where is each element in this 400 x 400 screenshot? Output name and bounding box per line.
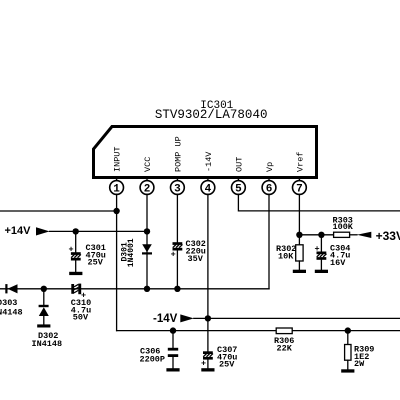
+33V arrow (357, 232, 371, 238)
svg-text:1: 1 (113, 183, 120, 195)
wire pin5 OUT (238, 194, 400, 211)
svg-text:4: 4 (205, 183, 212, 195)
node pin7/R302 (296, 232, 302, 238)
svg-text:50V: 50V (73, 313, 89, 323)
pin 1 circle (110, 179, 124, 195)
svg-text:STV9302/LA78040: STV9302/LA78040 (155, 108, 268, 122)
node pin4/-14V (205, 315, 211, 321)
pin 6 circle (262, 179, 276, 195)
capacitor C302 (171, 242, 183, 289)
wire pin1 vertical (116, 194, 118, 330)
resistor R302 (296, 235, 303, 270)
resistor R303 (334, 232, 350, 237)
capacitor C301 (68, 231, 80, 272)
svg-text:7: 7 (296, 183, 303, 195)
node C304 top (318, 232, 324, 238)
svg-text:+33V: +33V (376, 229, 400, 243)
svg-text:VCC: VCC (143, 157, 153, 172)
resistor R306 (276, 328, 292, 334)
resistor R309 (345, 331, 351, 370)
node D302 junction (41, 286, 47, 292)
svg-text:Vref: Vref (295, 152, 305, 172)
wire +33V rail (299, 234, 333, 236)
node R309 top (345, 327, 351, 333)
svg-text:Vp: Vp (265, 162, 275, 172)
svg-text:5: 5 (235, 183, 242, 195)
node pin2 bottom (144, 286, 150, 292)
wire pump rail (0, 288, 269, 290)
node junction pin1/branch (113, 208, 119, 214)
svg-text:+: + (171, 249, 176, 259)
wire pin4 vertical (207, 194, 209, 351)
+14V arrow (36, 227, 50, 235)
svg-text:POMP UP: POMP UP (173, 136, 183, 172)
ground C306 (166, 368, 179, 371)
wire pin2 vertical (146, 194, 148, 288)
diode D301 (142, 244, 152, 254)
ground C307 (201, 368, 214, 371)
svg-text:1N4001: 1N4001 (127, 238, 136, 267)
svg-text:+14V: +14V (5, 225, 32, 237)
wire pin1 upper branch to left edge (0, 210, 117, 212)
svg-text:100K: 100K (333, 222, 354, 232)
capacitor C306 (168, 331, 178, 369)
svg-text:2W: 2W (354, 359, 365, 369)
capacitor C307 (201, 351, 213, 368)
svg-text:3: 3 (174, 183, 181, 195)
node C302 bottom (174, 286, 180, 292)
svg-text:2: 2 (144, 183, 151, 195)
svg-text:25V: 25V (88, 258, 104, 268)
wire pin6 vertical (268, 194, 270, 288)
pin 3 circle (171, 179, 185, 195)
svg-text:-14V: -14V (153, 313, 178, 325)
svg-text:16V: 16V (330, 258, 346, 268)
capacitor C310 (71, 284, 86, 301)
wire pin7 vertical (298, 194, 300, 235)
svg-text:25V: 25V (219, 360, 235, 370)
diode D302 (39, 289, 49, 325)
wire -14V rail (194, 317, 400, 319)
svg-text:-14V: -14V (204, 151, 214, 172)
node C306 top (170, 327, 176, 333)
capacitor C304 (314, 235, 326, 270)
svg-text:OUT: OUT (234, 157, 244, 172)
pin 7 circle (293, 179, 307, 195)
ground D302 (37, 324, 50, 327)
svg-text:2200P: 2200P (140, 354, 166, 364)
pin 4 circle (201, 179, 215, 195)
svg-text:IN4148: IN4148 (32, 339, 63, 349)
wire +14V rail (50, 230, 148, 232)
svg-text:22K: 22K (277, 343, 293, 353)
svg-text:1N4148: 1N4148 (0, 307, 23, 317)
ground R309 (341, 369, 354, 372)
svg-text:INPUT: INPUT (113, 146, 123, 172)
svg-text:+: + (201, 359, 206, 369)
node C301 top (73, 228, 79, 234)
node pin2/+14V (144, 228, 150, 234)
ground C304 (315, 270, 328, 273)
svg-text:10K: 10K (278, 251, 294, 261)
svg-text:6: 6 (266, 183, 273, 195)
svg-text:35V: 35V (188, 254, 204, 264)
diode D303 (5, 284, 17, 293)
ground C301 (69, 272, 82, 275)
ground R302 (293, 270, 306, 273)
wire input line horizontal (117, 330, 277, 332)
svg-text:D303: D303 (0, 298, 17, 308)
pin 5 circle (232, 179, 246, 195)
-14V arrow (180, 314, 194, 322)
op-amp IC301 body (94, 127, 317, 178)
wire pin3 vertical (176, 194, 178, 242)
pin 2 circle (140, 179, 154, 195)
